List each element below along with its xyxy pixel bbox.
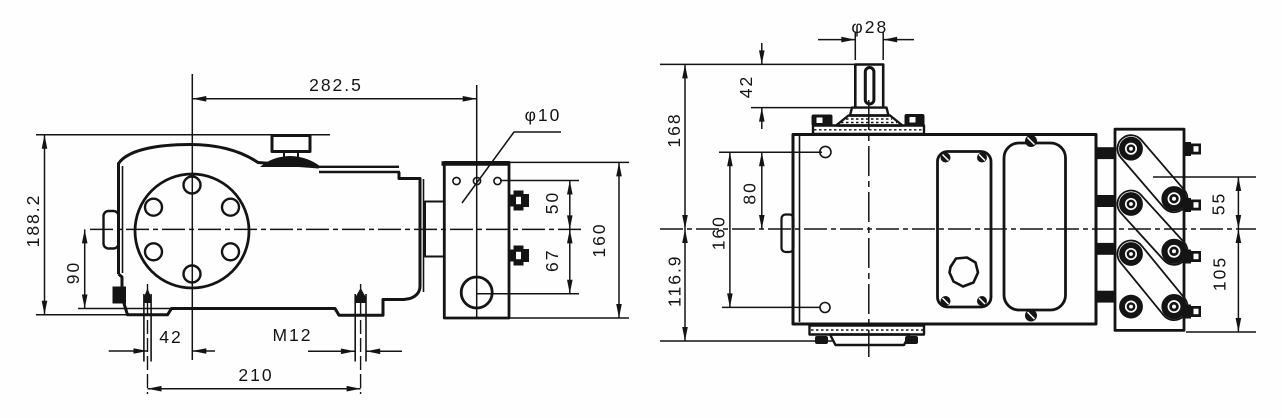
body top ledge double line: [319, 167, 400, 172]
right column bolts: [1163, 187, 1186, 318]
bearing side bolt left: [812, 115, 833, 127]
inspection cover 2: [1004, 143, 1066, 310]
dimension 210: [148, 388, 361, 390]
bearing side bolt right: [905, 114, 925, 126]
extension collar top: [751, 107, 852, 109]
svg-text:116.9: 116.9: [664, 254, 684, 307]
bearing mound: [836, 116, 903, 126]
body left edge inner line: [122, 166, 124, 273]
diagonal valve cover 3: [1112, 235, 1193, 326]
body rectangle: [793, 135, 1096, 325]
connector stubs: [1096, 147, 1115, 302]
extension shaft top: [660, 63, 855, 65]
dimension phi28: [818, 39, 855, 41]
cap boss mound (filled): [260, 156, 321, 167]
cover 2 bolts: [1025, 135, 1037, 322]
left column bolts: [1120, 138, 1142, 318]
phi10 leader: [462, 132, 561, 203]
vertical centerline right view: [868, 100, 870, 357]
flange bolt holes: [184, 177, 201, 194]
svg-text:50: 50: [542, 191, 562, 214]
svg-text:φ28: φ28: [851, 17, 888, 37]
dimension 168 / 116.9: [684, 64, 686, 341]
svg-text:42: 42: [736, 75, 756, 98]
body left inner line: [799, 136, 801, 322]
keyway: [865, 68, 874, 105]
extension hole top line: [719, 151, 822, 153]
dimension 282.5: [192, 98, 476, 100]
dimension 90: [84, 229, 86, 308]
body small hole top: [820, 146, 831, 157]
svg-text:42: 42: [159, 327, 182, 347]
extension hole bottom line: [722, 306, 820, 308]
spacer block between body and fluid end: [425, 202, 445, 257]
right foot bolt M12: [355, 294, 366, 362]
main horizontal centerline left view: [90, 228, 581, 230]
oil plug knob (polygon): [950, 258, 979, 287]
pan bolts: [815, 336, 918, 344]
svg-text:210: 210: [238, 365, 273, 385]
dimension 42 right view: [761, 43, 763, 129]
dimension M12 leaders: [308, 350, 355, 352]
bottom pan plate: [810, 326, 925, 335]
svg-text:160: 160: [709, 215, 729, 250]
svg-text:φ10: φ10: [525, 105, 562, 125]
bearing base plate: [813, 126, 924, 135]
block big port circle: [461, 277, 492, 308]
extension block bottom right view: [1186, 331, 1256, 333]
svg-text:67: 67: [542, 249, 562, 272]
shaft: [855, 65, 883, 108]
extension valve line: [1153, 176, 1256, 178]
shaft collar: [850, 108, 889, 116]
svg-text:90: 90: [63, 261, 83, 284]
valve block thick top edge: [442, 161, 511, 166]
extension block top right: [510, 161, 629, 163]
extension hole line: [500, 180, 579, 182]
diagonal valve cover 2: [1112, 185, 1193, 270]
bottom pan: [830, 335, 910, 346]
svg-text:105: 105: [1209, 256, 1229, 291]
body right edge inner line: [423, 179, 425, 292]
cover 1 corner bolts: [941, 153, 988, 307]
extension line underside: [78, 308, 171, 310]
svg-text:188.2: 188.2: [23, 194, 43, 248]
crank vertical centerline: [191, 74, 193, 360]
dimension 50 / 67: [569, 181, 571, 294]
dimension 80: [761, 152, 763, 229]
valve block (fluid end): [444, 162, 509, 318]
block vertical centerline: [476, 85, 478, 318]
svg-text:55: 55: [1209, 192, 1229, 215]
body small hole bottom: [820, 303, 830, 313]
block stud lower: [510, 246, 530, 266]
svg-text:160: 160: [589, 222, 609, 257]
valve block right view: [1115, 129, 1184, 330]
main horizontal centerline right view: [660, 228, 1256, 230]
foot black lug: [113, 287, 127, 304]
diagonal valve cover 1: [1112, 130, 1193, 218]
dimension 188.2: [44, 135, 46, 315]
left foot bolt M12: [144, 294, 151, 362]
dimension 160 right view: [729, 152, 731, 307]
body right and bottom profile: [119, 172, 421, 315]
pump body outline: [119, 145, 320, 275]
oil filler cap: [272, 136, 310, 152]
extension block bottom right: [510, 317, 629, 319]
left bump (shaft boss): [782, 215, 794, 253]
phi10 holes: [453, 177, 460, 184]
bearing flange big circle: [135, 174, 249, 288]
extension line top (overall height): [36, 134, 330, 136]
inspection cover 1: [938, 152, 992, 308]
right edge studs: [1185, 142, 1202, 319]
dimension 160 left view: [618, 162, 620, 318]
svg-text:M12: M12: [272, 325, 312, 345]
dimension 42 bottom: [109, 350, 148, 352]
extension line foot bottom: [36, 314, 127, 316]
dimension 55 / 105: [1237, 177, 1239, 332]
extension pan bottom: [660, 340, 833, 342]
left shaft stub: [104, 211, 119, 249]
svg-text:80: 80: [740, 181, 760, 204]
extension circle line: [477, 293, 579, 295]
block stud upper: [510, 191, 530, 211]
svg-text:168: 168: [664, 112, 684, 147]
svg-text:282.5: 282.5: [309, 75, 363, 95]
